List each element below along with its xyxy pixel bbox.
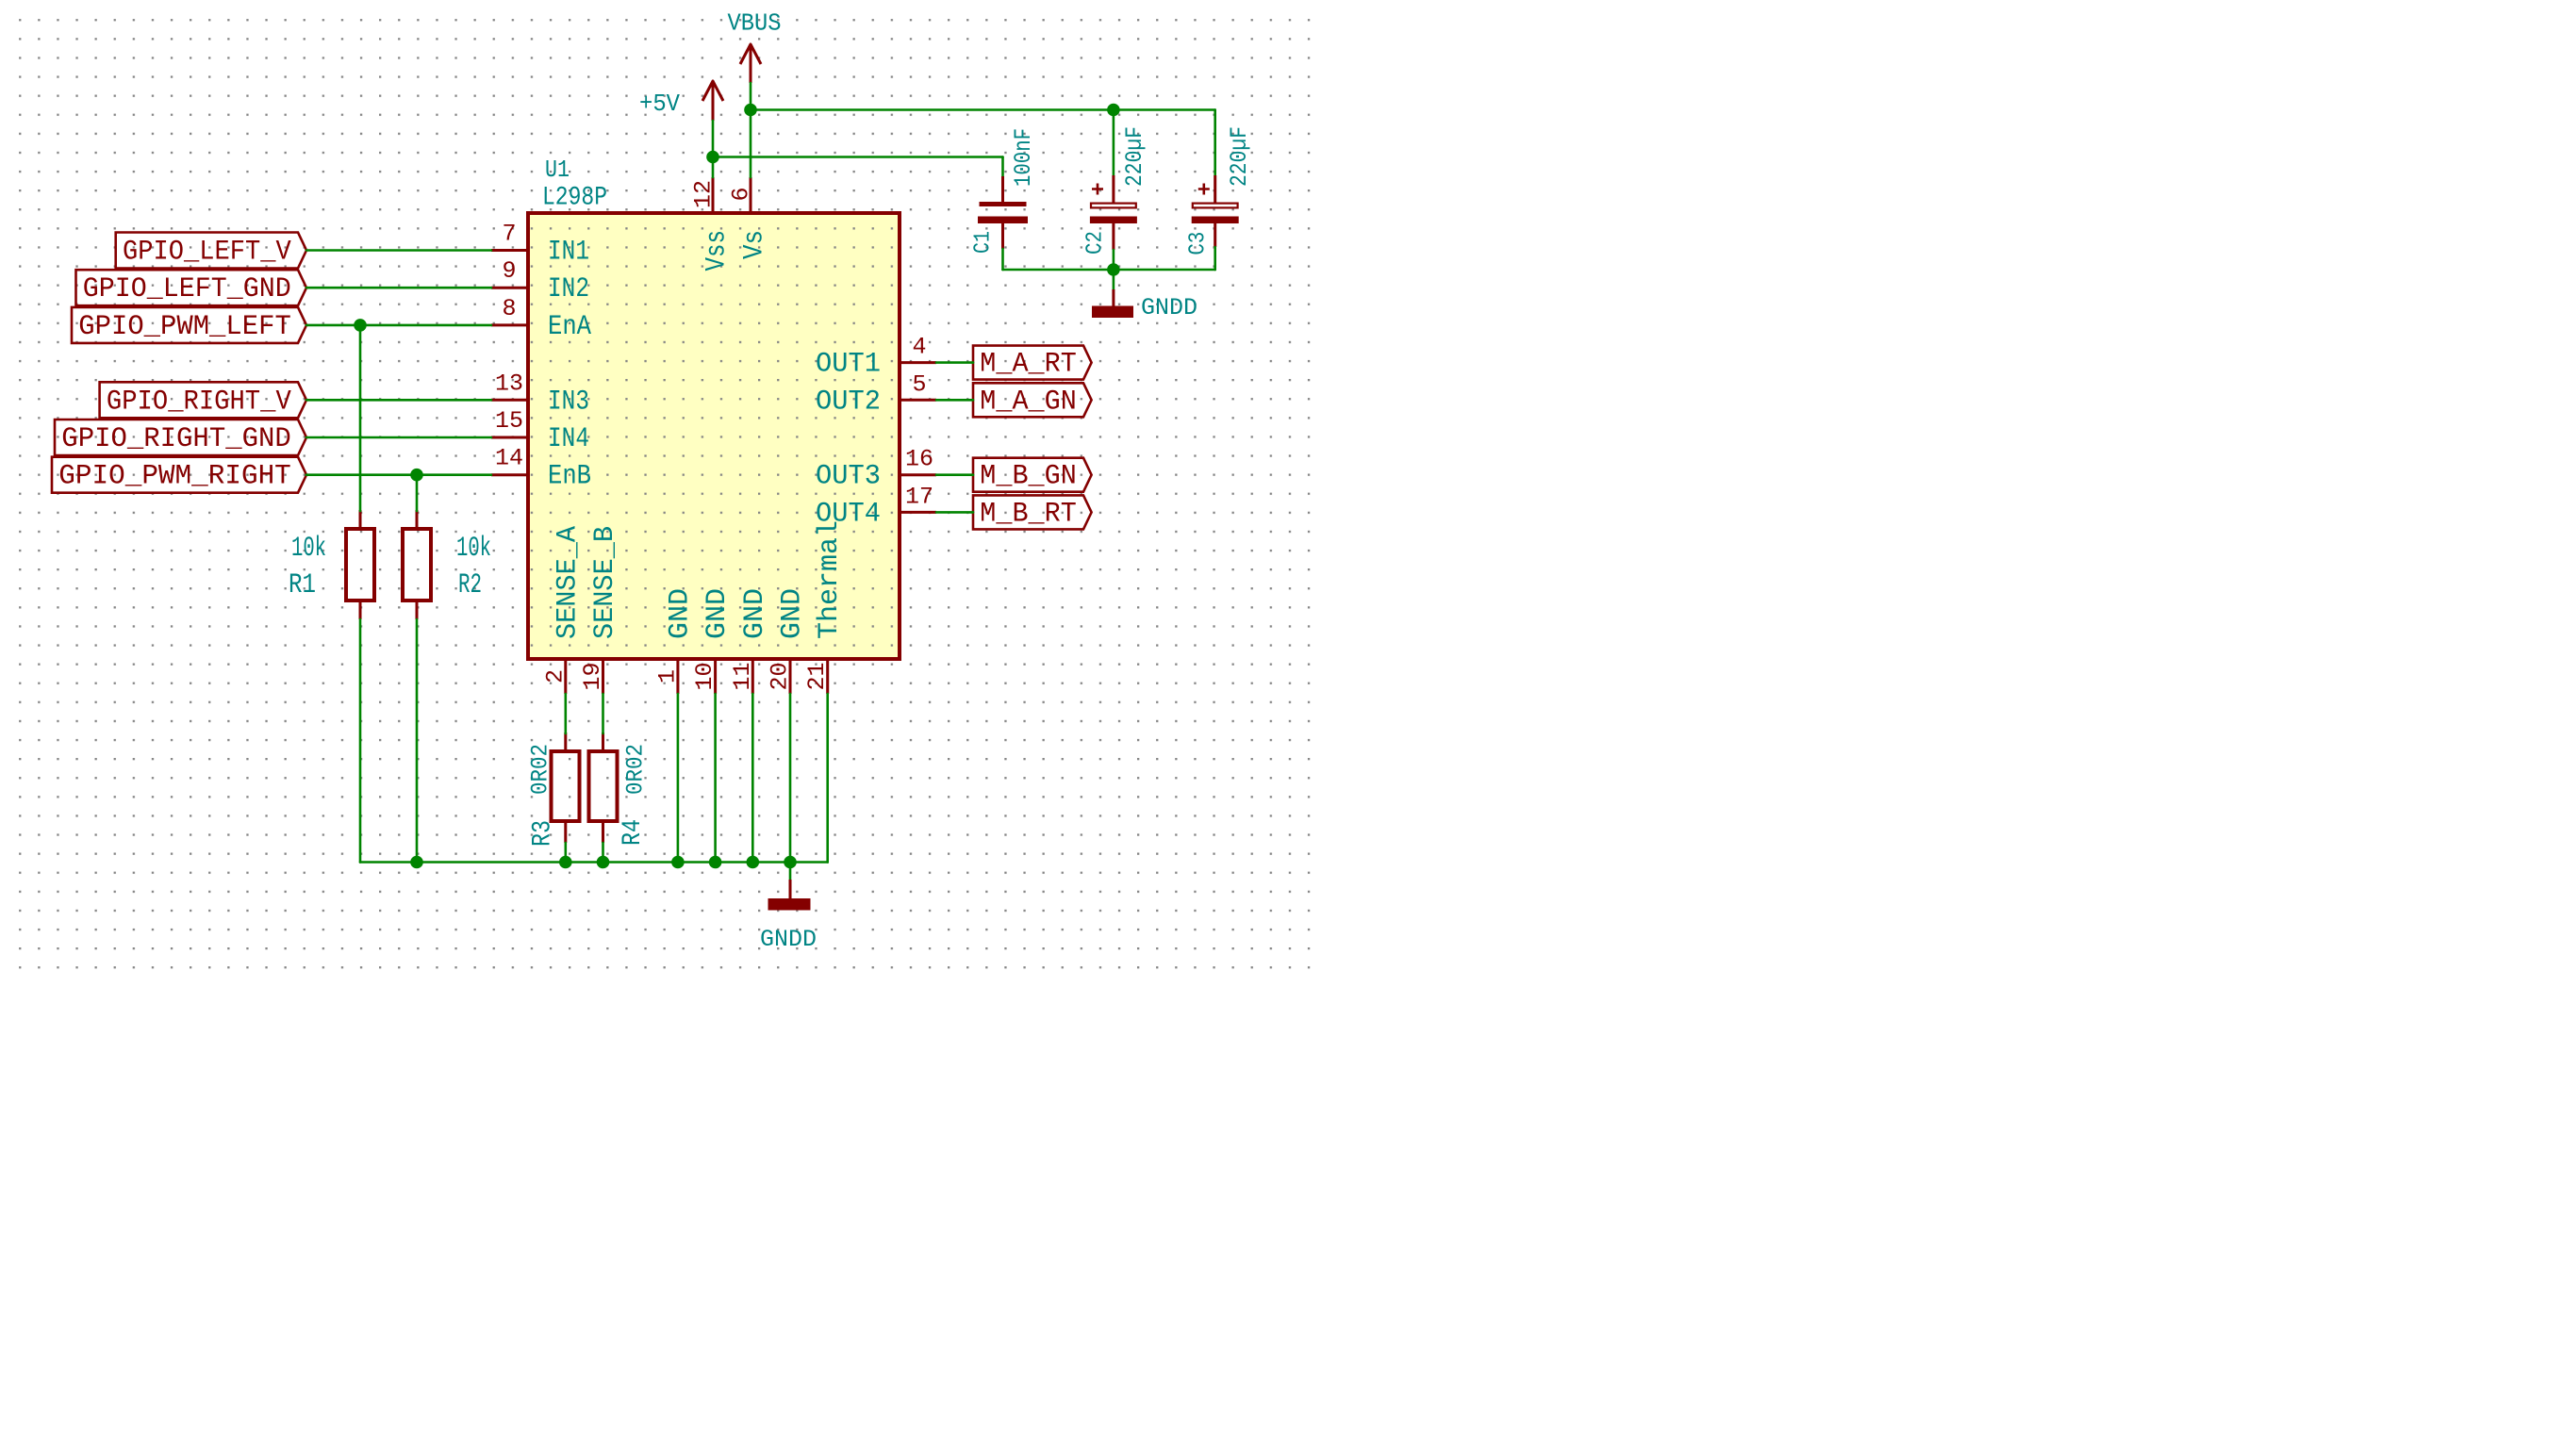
svg-text:GPIO_LEFT_GND: GPIO_LEFT_GND [83,273,291,305]
svg-text:M_B_RT: M_B_RT [980,498,1077,530]
svg-text:C3: C3 [1186,232,1212,255]
power symbol +5V [639,81,723,121]
svg-text:IN4: IN4 [548,423,589,455]
U1 pin 8 (EnA) left side [491,295,591,343]
svg-text:C1: C1 [970,231,996,254]
svg-text:0R02: 0R02 [622,744,650,795]
svg-text:IN3: IN3 [548,386,589,418]
hierarchical label M_B_RT [973,495,1092,530]
junction pin10 / ground bus [709,856,722,869]
wire +5V to U1 pin 12 [712,121,715,177]
R4 value 0R02 [622,744,650,795]
resistor R4 0R02 [589,732,618,843]
svg-text:OUT2: OUT2 [816,386,881,418]
svg-text:U1: U1 [545,156,570,184]
svg-text:GNDD: GNDD [1141,294,1197,321]
wire U1 pin 2 to R3 [564,694,567,733]
svg-text:15: 15 [495,407,523,435]
hierarchical label GPIO_LEFT_V [116,233,306,269]
wire GPIO_RIGHT_GND to U1 [306,436,491,439]
U1 pin 4 (OUT1) right side [816,334,936,381]
svg-text:M_A_RT: M_A_RT [980,349,1077,381]
resistor R1 10k [346,510,374,619]
wire U1 pin 21 Thermal drop [826,694,829,863]
wire +5V bus to C1 [713,156,1003,158]
junction EnA tap [354,319,367,332]
wire GPIO_PWM_RIGHT to U1 [306,473,491,476]
C2 value 220uF [1121,126,1148,187]
hierarchical label M_A_RT [973,346,1092,381]
svg-text:L298P: L298P [542,184,607,213]
hierarchical label GPIO_LEFT_GND [76,270,307,305]
U1 pin 14 (EnB) left side [491,445,591,493]
svg-text:220µF: 220µF [1121,126,1148,187]
svg-text:R3: R3 [528,820,557,847]
svg-text:GPIO_RIGHT_V: GPIO_RIGHT_V [107,386,291,418]
junction pin11 / ground bus [747,856,760,869]
U1 pin 17 (OUT4) right side [816,483,936,530]
wire EnA to R1 [359,325,362,511]
svg-text:IN1: IN1 [548,237,589,269]
svg-text:220µF: 220µF [1226,126,1253,187]
U1 pin 7 (IN1) left side [491,221,589,269]
U1 pin 10 (GND) bottom side [691,588,734,694]
wire U1 pin 10 GND drop [714,694,717,863]
wire ground bus [360,861,828,864]
svg-text:M_B_GN: M_B_GN [980,461,1077,493]
junction cap bus / GNDD tap [1107,263,1120,276]
U1 pin 19 (SENSE_B) bottom side [579,526,621,694]
svg-text:GPIO_PWM_LEFT: GPIO_PWM_LEFT [78,311,290,343]
svg-text:21: 21 [803,662,831,690]
hierarchical label M_B_GN [973,458,1092,493]
svg-text:10k: 10k [456,533,491,565]
C3 value 220uF [1226,126,1253,187]
svg-text:5: 5 [912,370,926,398]
R4 reference designator [619,819,648,846]
junction pin1 / ground bus [671,856,685,869]
U1 pin 6 (Vs) top side [728,177,771,259]
hierarchical label GPIO_RIGHT_V [100,382,306,418]
hierarchical label GPIO_PWM_RIGHT [52,457,306,493]
wire U1 pin 16 to M_B_GN [936,473,973,476]
U1 pin 5 (OUT2) right side [816,370,936,418]
wire C1 bottom [1001,249,1004,270]
hierarchical label GPIO_PWM_LEFT [72,307,306,343]
svg-text:7: 7 [502,221,516,248]
svg-text:20: 20 [767,662,794,690]
resistor R2 10k [403,510,431,619]
junction C2 top tap [1107,104,1120,117]
svg-text:Vs: Vs [739,230,771,259]
IC U1 L298P body [528,213,900,659]
svg-text:IN2: IN2 [548,273,589,305]
svg-text:OUT1: OUT1 [816,349,881,381]
capacitor C2 220uF (polarized) [1090,175,1137,250]
wire U1 pin 5 to M_A_GN [936,399,973,402]
wire C3 bottom [1214,247,1216,270]
wire U1 pin 4 to M_A_RT [936,361,973,364]
svg-text:19: 19 [579,662,606,690]
C2 reference designator [1082,231,1108,255]
svg-text:GPIO_RIGHT_GND: GPIO_RIGHT_GND [61,423,290,455]
U1 pin 11 (GND) bottom side [729,588,771,694]
svg-text:M_A_GN: M_A_GN [980,386,1077,418]
wire U1 pin 20 GND drop [789,694,792,863]
wire C1 drop [1001,157,1004,177]
capacitor C3 220uF (polarized) [1192,175,1239,247]
svg-text:SENSE_B: SENSE_B [589,526,621,639]
wire U1 pin 19 to R4 [602,694,604,733]
wire GNDD drop (top) [1113,270,1115,289]
power symbol GNDD (bottom) [760,880,817,953]
R2 value 10k [456,533,491,565]
svg-text:9: 9 [502,257,516,285]
C1 reference designator [970,231,996,254]
svg-text:C2: C2 [1082,231,1108,255]
svg-text:GND: GND [664,588,696,639]
power symbol VBUS [728,9,782,84]
svg-text:GND: GND [739,588,771,639]
wire VBUS to U1 pin 6 [750,83,752,177]
wire R1 to ground bus [359,619,362,863]
svg-text:13: 13 [495,370,523,397]
wire U1 pin 11 GND drop [751,694,754,863]
svg-text:4: 4 [912,334,926,361]
svg-text:6: 6 [728,187,755,201]
R3 value 0R02 [527,744,554,795]
wire R2 to ground bus [416,619,419,863]
junction VBUS / C2-C3 branch [744,104,757,117]
wire EnB to R2 [416,475,419,511]
U1 pin 1 (GND) bottom side [653,588,696,694]
U1 pin 16 (OUT3) right side [816,446,936,493]
svg-text:14: 14 [495,445,523,472]
wire capacitor ground bus [1003,269,1215,271]
capacitor C1 100nF [978,176,1028,249]
svg-text:Vss: Vss [702,230,734,271]
U1 pin 15 (IN4) left side [491,407,589,455]
R1 value 10k [291,533,326,565]
U1 reference designator [545,156,570,184]
svg-text:12: 12 [690,180,718,208]
wire R4 to ground bus [602,843,604,863]
junction pin20 / ground bus [784,856,797,869]
svg-text:+5V: +5V [639,90,680,118]
wire C2 drop [1113,110,1115,176]
svg-text:GND: GND [702,588,734,639]
junction R4 / ground bus [597,856,610,869]
svg-text:10k: 10k [291,533,326,565]
svg-text:OUT3: OUT3 [816,461,881,493]
svg-text:GND: GND [777,588,809,639]
svg-text:GNDD: GNDD [760,926,817,953]
power symbol GNDD (capacitor bank) [1092,289,1197,321]
wire VBUS bus to C3 [751,108,1215,111]
svg-text:EnB: EnB [548,461,591,493]
C3 reference designator [1186,232,1212,255]
svg-text:R1: R1 [289,569,316,601]
svg-text:VBUS: VBUS [728,9,782,38]
U1 pin 20 (GND) bottom side [767,588,809,694]
svg-text:2: 2 [541,669,569,683]
wire C2 bottom [1113,250,1115,270]
junction R2 / ground bus [410,856,423,869]
wire U1 pin 17 to M_B_RT [936,511,973,514]
wire C3 drop [1214,110,1216,176]
wire GPIO_RIGHT_V to U1 [306,399,491,402]
svg-text:GPIO_LEFT_V: GPIO_LEFT_V [123,237,291,269]
svg-text:8: 8 [502,295,516,322]
wire GPIO_LEFT_V to U1 [306,249,491,252]
wire GPIO_LEFT_GND to U1 [306,287,491,289]
svg-text:11: 11 [729,662,756,690]
U1 pin 12 (Vss) top side [690,177,734,271]
junction R3 / ground bus [559,856,572,869]
U1 pin 9 (IN2) left side [491,257,589,305]
U1 pin 2 (SENSE_A) bottom side [541,526,584,694]
svg-text:GPIO_PWM_RIGHT: GPIO_PWM_RIGHT [58,461,290,493]
svg-text:0R02: 0R02 [527,744,554,795]
U1 pin 13 (IN3) left side [491,370,589,418]
svg-text:R2: R2 [458,569,482,601]
svg-text:SENSE_A: SENSE_A [552,526,584,639]
C1 value 100nF [1010,128,1037,187]
wire GNDD drop (bottom) [789,863,792,880]
wire GPIO_PWM_LEFT to U1 [306,324,491,327]
svg-text:17: 17 [905,483,933,510]
wire R3 to ground bus [564,843,567,863]
R3 reference designator [528,820,557,847]
U1 value L298P [542,184,607,213]
hierarchical label GPIO_RIGHT_GND [55,420,306,455]
wire U1 pin 1 GND drop [677,694,680,863]
junction +5V / C1 branch [706,151,719,164]
svg-text:R4: R4 [619,819,648,846]
junction EnB tap [410,469,423,482]
svg-text:Thermal: Thermal [814,520,846,639]
R1 reference designator [289,569,316,601]
hierarchical label M_A_GN [973,383,1092,418]
svg-text:10: 10 [691,662,718,690]
R2 reference designator [458,569,482,601]
U1 pin 21 (Thermal) bottom side [803,520,846,694]
svg-text:16: 16 [905,446,933,473]
resistor R3 0R02 [552,732,580,843]
svg-text:EnA: EnA [548,311,591,343]
svg-text:1: 1 [653,669,681,683]
svg-text:100nF: 100nF [1010,128,1037,187]
